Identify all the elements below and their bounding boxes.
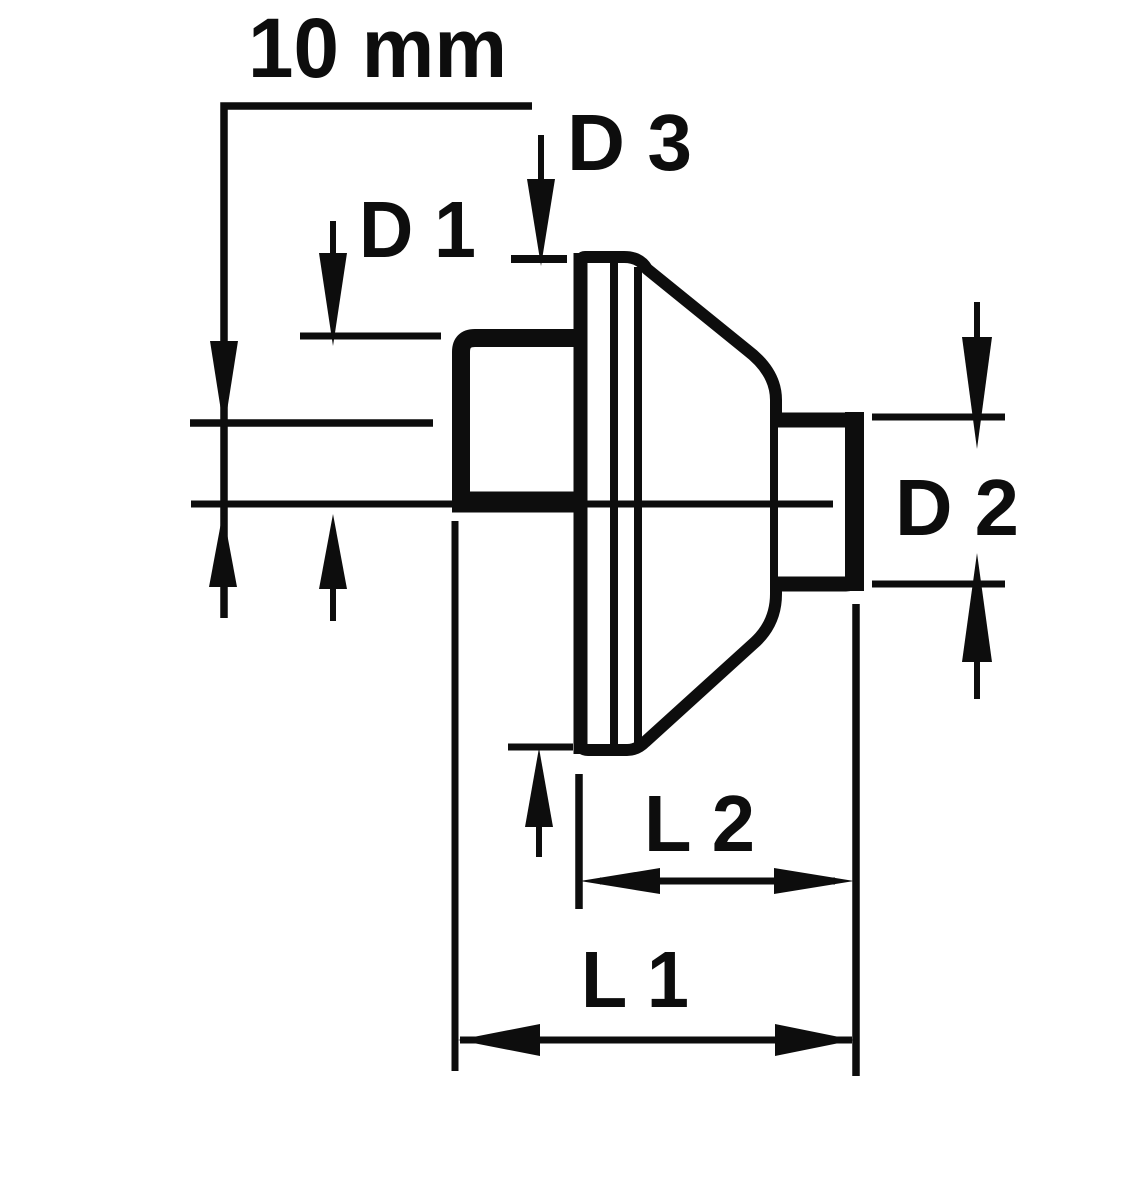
collet block	[461, 338, 580, 512]
svg-text:D 3: D 3	[567, 98, 692, 187]
tick D3 top	[511, 255, 567, 263]
pilot cylinder	[778, 420, 855, 584]
svg-text:D 2: D 2	[895, 463, 1019, 552]
arrow down D2	[974, 302, 980, 341]
arrow up D3	[525, 748, 553, 827]
svg-text:L 2: L 2	[644, 779, 755, 868]
dimension line L2	[600, 878, 835, 885]
wheel body	[580, 257, 776, 750]
tick D2 top	[872, 414, 1005, 421]
tick D1	[300, 333, 441, 340]
arrow down 10mm	[210, 341, 238, 430]
arrow up 10mm	[209, 512, 237, 587]
svg-text:L 1: L 1	[581, 935, 689, 1024]
extension line L1 left	[452, 521, 459, 1071]
dimension bracket 10mm	[224, 106, 532, 618]
svg-text:D 1: D 1	[359, 185, 476, 274]
tick shank top	[190, 419, 433, 427]
tick D2 bottom	[872, 581, 1005, 588]
arrow up D1	[319, 514, 347, 589]
wheel left face	[574, 253, 588, 754]
tick D3 bottom	[508, 744, 573, 751]
axis centerline	[191, 501, 833, 508]
arrow down D3	[538, 135, 544, 182]
arrow up D2	[962, 553, 992, 662]
svg-text:10 mm: 10 mm	[248, 1, 507, 95]
dimension line L1	[460, 1037, 852, 1044]
wheel inner line 1	[610, 262, 618, 748]
extension line L2 left	[575, 774, 583, 909]
arrow down D1	[330, 221, 336, 256]
wheel inner line 2	[634, 267, 642, 745]
extension line right	[852, 604, 860, 1076]
